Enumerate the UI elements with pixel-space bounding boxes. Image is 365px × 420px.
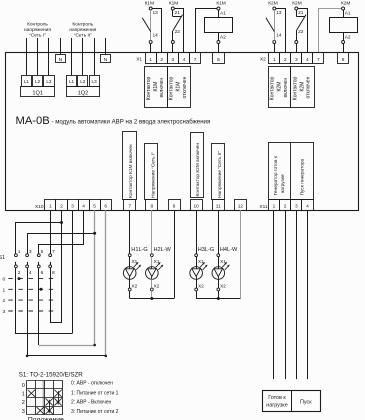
wire contact 3 to X10-5 [28, 234, 95, 254]
junction X10-2 / contact 1 [60, 221, 63, 224]
switch position dot row0 [18, 277, 21, 280]
terminal strip X11 [259, 200, 313, 211]
svg-text:1: 1 [149, 57, 152, 63]
svg-text:3: 3 [3, 309, 6, 315]
contact К1М NO 13-14 [142, 1, 161, 52]
svg-text:Контактор К2М включен: Контактор К2М включен [195, 143, 201, 197]
terminal N (net I) [56, 55, 66, 64]
wire X11-4 to generator [307, 210, 309, 379]
svg-text:5: 5 [93, 204, 96, 210]
svg-text:напряжения: напряжения [69, 28, 96, 33]
svg-text:0: 0 [3, 277, 6, 283]
svg-text:L1: L1 [69, 79, 75, 84]
coil К2М A1-A2 [330, 1, 358, 52]
svg-text:Напряжение “Сеть II”: Напряжение “Сеть II” [217, 150, 223, 197]
svg-text:4: 4 [82, 204, 85, 210]
svg-text:3: 3 [29, 249, 32, 255]
svg-text:2: 2 [160, 57, 163, 63]
LED lamp H1L-G [123, 247, 147, 298]
label box contactor K2M on (output 10) [191, 133, 204, 198]
svg-text:N: N [104, 57, 108, 63]
svg-text:Контактор: Контактор [292, 76, 298, 100]
switch S1 designator [0, 255, 5, 261]
svg-text:9: 9 [173, 204, 176, 210]
svg-text:8: 8 [151, 204, 154, 210]
svg-text:Положение: Положение [28, 416, 64, 420]
svg-text:X2: X2 [154, 284, 160, 289]
svg-text:К1М: К1М [145, 1, 154, 7]
wire X10 to lamp H1L-G [129, 210, 131, 254]
svg-text:напряжения: напряжения [24, 28, 51, 33]
svg-text:Контроль: Контроль [27, 22, 48, 28]
svg-text:7: 7 [52, 249, 55, 255]
svg-text:Готов к: Готов к [268, 395, 286, 401]
wire X11-1 to generator [273, 210, 275, 379]
svg-text:Х1: Х1 [136, 57, 142, 63]
table arrow col4 [57, 391, 60, 405]
svg-text:21: 21 [298, 10, 304, 16]
svg-text:L3: L3 [46, 79, 52, 84]
svg-text:L2: L2 [80, 79, 86, 84]
svg-text:К2М: К2М [299, 82, 305, 92]
svg-text:4: 4 [306, 57, 309, 63]
wire terminal 7 to coil К1М [196, 9, 218, 53]
svg-text:Контактор К1М включен: Контактор К1М включен [128, 144, 134, 198]
wire X10-1 to S1 contact 7 [50, 210, 52, 254]
module title MA-0V [16, 115, 50, 127]
svg-text:L3: L3 [92, 79, 98, 84]
svg-text:22: 22 [175, 29, 181, 35]
contact К2М NO 13-14 [266, 1, 286, 52]
svg-text:1: 1 [22, 391, 25, 397]
svg-text:Напряжение “Сеть I”: Напряжение “Сеть I” [150, 152, 156, 198]
wire X11-3 to generator [296, 210, 298, 379]
svg-text:3: Питание от сети 2: 3: Питание от сети 2 [71, 409, 119, 415]
LED lamp H2L-W [146, 247, 172, 298]
svg-text:Пуск генератора: Пуск генератора [300, 158, 306, 195]
wire X10 to lamp H3L-G [196, 210, 198, 254]
label box contactor К2М off [291, 67, 315, 108]
svg-text:8: 8 [217, 57, 220, 63]
svg-text:4: 4 [29, 270, 32, 276]
svg-text:- модуль автоматики АВР на 2 в: - модуль автоматики АВР на 2 ввода элект… [52, 118, 211, 125]
table row labels [22, 383, 25, 415]
wire contact 2 to X10-3 [16, 268, 73, 334]
legend position texts [71, 381, 119, 415]
svg-text:К1М: К1М [169, 1, 178, 7]
svg-text:4: 4 [306, 204, 309, 210]
switch S1 contact 7-8 [49, 249, 55, 276]
svg-text:A2: A2 [345, 35, 351, 41]
svg-text:X2: X2 [220, 284, 226, 289]
svg-text:21: 21 [175, 10, 181, 16]
breaker 1Q2 [67, 76, 100, 97]
svg-text:A1: A1 [220, 10, 226, 16]
svg-text:1: 1 [273, 57, 276, 63]
svg-text:Х2: Х2 [260, 57, 266, 63]
svg-text:3: 3 [172, 57, 175, 63]
svg-text:6: 6 [41, 270, 44, 276]
svg-text:7: 7 [317, 57, 320, 63]
svg-text:H2L-W: H2L-W [153, 247, 171, 253]
wire contact 1 to X10-2 [16, 223, 62, 254]
svg-text:К2М: К2М [292, 1, 301, 7]
switch S1 contact 5-6 [37, 249, 43, 276]
LED lamp H3L-G [190, 247, 214, 298]
svg-text:L1: L1 [24, 79, 30, 84]
label box voltage net II (output 11) [212, 144, 225, 200]
contact К1М NC 21-22 [169, 1, 184, 52]
svg-text:2: 2 [18, 270, 21, 276]
svg-text:Генератор готов к: Генератор готов к [273, 155, 279, 195]
wire X10-6 riser [105, 210, 107, 356]
svg-text:A1: A1 [345, 10, 351, 16]
svg-text:МА-0В: МА-0В [16, 115, 50, 127]
svg-text:Контактор: Контактор [270, 76, 276, 100]
svg-text:A2: A2 [220, 35, 226, 41]
svg-text:К2М: К2М [268, 1, 277, 7]
label box generator ready / start [269, 143, 314, 200]
table arrow col3 [48, 400, 51, 414]
svg-text:Контактор: Контактор [169, 76, 175, 100]
contact К2М NC 21-22 [292, 1, 307, 52]
breaker 1Q1 [21, 76, 55, 97]
wire X10-5 riser [94, 210, 96, 345]
svg-text:11: 11 [216, 204, 221, 210]
junction X10-5 / contact 3 [93, 232, 96, 235]
svg-text:3: 3 [22, 409, 25, 415]
label box contactor К1М on [145, 67, 168, 108]
wire contact 8 to X10-2 [51, 268, 62, 323]
svg-text:1: 1 [3, 287, 6, 293]
switch position dot row1 [40, 288, 43, 291]
wire contact 5 to X10-4 [39, 210, 84, 254]
svg-text:13: 13 [276, 10, 282, 16]
label box contactor K1M on (output 7) [123, 132, 137, 200]
junction dot contact 6 branch [93, 344, 96, 347]
svg-text:2: 2 [60, 204, 63, 210]
wire contact 4 to X10-6 [28, 268, 106, 356]
terminal N (net II) [101, 55, 111, 64]
label box contactor К2М on [269, 67, 291, 108]
svg-text:“Сеть II”: “Сеть II” [74, 32, 92, 38]
svg-text:Пуск: Пуск [300, 400, 312, 406]
label box voltage net I (output 8) [145, 144, 158, 200]
svg-text:2: 2 [3, 298, 6, 304]
svg-text:3: 3 [295, 57, 298, 63]
module subtitle [52, 118, 211, 125]
svg-text:H4L-W: H4L-W [220, 247, 238, 253]
wires net I inputs [27, 38, 49, 75]
svg-text:6: 6 [104, 204, 107, 210]
svg-text:2: АВР - Включен: 2: АВР - Включен [71, 400, 112, 406]
wire net II neutral [105, 38, 107, 55]
svg-text:S1: TO-2-15920/E/SZR: S1: TO-2-15920/E/SZR [19, 371, 84, 378]
svg-text:Х10: Х10 [35, 204, 44, 210]
svg-text:1: 1 [49, 204, 52, 210]
svg-text:10: 10 [193, 204, 199, 210]
terminal strip Х1 [136, 53, 224, 64]
wire X10 to lamp H4L-W [218, 210, 220, 254]
label voltage control net I [24, 22, 51, 39]
svg-text:H3L-G: H3L-G [198, 247, 214, 253]
svg-text:5: 5 [41, 249, 44, 255]
switch S1 contact 1-2 [15, 249, 21, 276]
svg-text:Контроль: Контроль [72, 22, 93, 28]
wire X11-2 to generator [285, 210, 287, 379]
svg-text:H1L-G: H1L-G [131, 247, 147, 253]
wire X10-3 riser [72, 210, 74, 333]
svg-text:0: АВР - отключен: 0: АВР - отключен [71, 381, 113, 387]
svg-text:2: 2 [284, 204, 287, 210]
svg-text:7: 7 [128, 204, 131, 210]
svg-text:отключен: отключен [182, 76, 188, 98]
svg-text:включен: включен [283, 78, 289, 98]
svg-text:1: 1 [273, 204, 276, 210]
svg-text:3: 3 [295, 204, 298, 210]
svg-text:13: 13 [152, 10, 158, 16]
svg-text:К1М: К1М [153, 82, 159, 92]
svg-text:включен: включен [159, 78, 165, 98]
wires net II inputs [72, 38, 95, 75]
switch S1 type label [19, 371, 84, 378]
label voltage control net II [69, 22, 96, 39]
svg-text:14: 14 [276, 32, 282, 38]
wire net I neutral [60, 38, 62, 55]
wire lamp group 1 return to X10-9 [130, 210, 175, 298]
label box contactor К1М off [168, 67, 191, 108]
junction lamp H4L return [217, 297, 220, 300]
table clipped caption [28, 416, 64, 420]
svg-text:7: 7 [194, 57, 197, 63]
svg-text:1Q2: 1Q2 [78, 91, 89, 97]
svg-text:N: N [59, 57, 63, 63]
svg-text:нагрузке: нагрузке [281, 174, 286, 193]
svg-text:3: 3 [71, 204, 74, 210]
svg-text:S1: S1 [0, 255, 5, 261]
svg-text:нагрузке: нагрузке [266, 403, 287, 409]
svg-text:Контактор: Контактор [146, 76, 152, 100]
svg-text:“Сеть I”: “Сеть I” [29, 32, 46, 38]
svg-text:2: 2 [284, 57, 287, 63]
wire X10-2 riser [61, 210, 63, 323]
wire lamp group 2 return to X10-12 [196, 210, 240, 298]
svg-text:К2М: К2М [277, 82, 283, 92]
svg-text:2: 2 [22, 400, 25, 406]
junction lamp H2L return [150, 297, 153, 300]
svg-text:X2: X2 [132, 284, 138, 289]
switch position row 2 [3, 298, 56, 304]
junction dot contact 4 branch [105, 355, 108, 358]
gray wire through table [43, 380, 45, 415]
svg-text:X2: X2 [198, 284, 204, 289]
junction dot col4 corner [26, 355, 29, 358]
wire X10 to lamp H2L-W [151, 210, 153, 254]
switch S1 contact 3-4 [26, 249, 32, 276]
coil К1М A1-A2 [205, 1, 233, 52]
switch position row 0 [3, 277, 56, 283]
switch position row 1 [3, 287, 56, 293]
svg-text:0: 0 [22, 383, 25, 389]
svg-text:1Q1: 1Q1 [32, 91, 43, 97]
svg-text:22: 22 [298, 29, 304, 35]
svg-text:1: 1 [18, 249, 21, 255]
svg-text:L2: L2 [35, 79, 41, 84]
generator signal box ready/start [263, 390, 321, 412]
wire contact 6 to X10-5 [39, 268, 95, 346]
svg-text:К1М: К1М [176, 82, 182, 92]
terminal strip X10 [35, 200, 246, 211]
svg-text:Х11: Х11 [259, 204, 268, 210]
svg-text:4: 4 [183, 57, 186, 63]
terminal strip Х2 [260, 53, 349, 64]
switch position row 3 [3, 309, 56, 315]
svg-text:8: 8 [342, 57, 345, 63]
svg-text:14: 14 [152, 32, 158, 38]
svg-text:12: 12 [238, 204, 244, 210]
wire terminal 7 to coil К2М [319, 9, 342, 53]
svg-text:К2М: К2М [341, 1, 350, 7]
svg-text:К1М: К1М [216, 1, 225, 7]
svg-text:8: 8 [52, 270, 55, 276]
module MA-0V outline [6, 53, 359, 211]
svg-text:отключен: отключен [306, 76, 312, 98]
svg-text:1: Питание от сети 1: 1: Питание от сети 1 [71, 390, 119, 396]
LED lamp H4L-W [212, 247, 238, 298]
